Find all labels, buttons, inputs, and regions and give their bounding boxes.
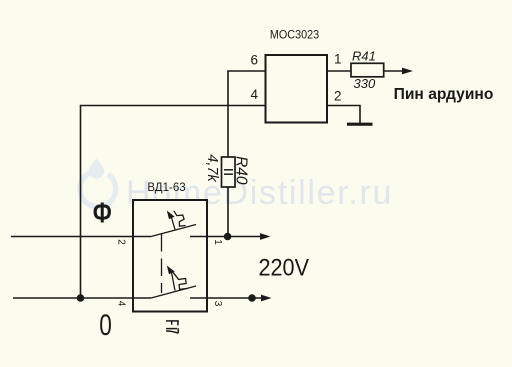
arrow to arduino bbox=[402, 68, 413, 75]
svg-text:R41: R41 bbox=[352, 49, 376, 64]
watermark logo droplet bbox=[89, 159, 105, 179]
wire: MOC pin2 to ground bbox=[327, 106, 360, 124]
svg-text:4: 4 bbox=[250, 87, 258, 102]
svg-text:4,7k: 4,7k bbox=[204, 154, 220, 182]
switch pole 1 release flag bbox=[174, 211, 186, 226]
svg-text:Пин ардуино: Пин ардуино bbox=[394, 86, 494, 103]
wire: MOC pin4 left then down to neutral bbox=[81, 106, 266, 299]
watermark logo ring bbox=[80, 171, 116, 207]
switch pole 2 blade bbox=[151, 286, 196, 298]
wire: MOC pin6 to R40 top (horizontal + vertical) bbox=[228, 71, 266, 157]
svg-text:4: 4 bbox=[115, 301, 126, 307]
wire: phase input bbox=[11, 236, 151, 238]
ground bbox=[347, 123, 373, 126]
arrow neutral 220V bbox=[261, 295, 272, 302]
svg-text:ВД1-63: ВД1-63 bbox=[147, 182, 185, 194]
resistor R40 inner power marks bbox=[224, 169, 233, 171]
label F7 bbox=[166, 321, 179, 333]
svg-text:3: 3 bbox=[212, 301, 223, 307]
svg-text:1: 1 bbox=[212, 239, 223, 245]
wire: MOC pin1 to R41 bbox=[327, 70, 351, 72]
switch pole 2 release flag bbox=[173, 272, 188, 289]
wire: R41 to arduino pin arrow bbox=[384, 70, 403, 72]
svg-text:6: 6 bbox=[250, 53, 258, 68]
junction: neutral drop bbox=[77, 294, 85, 302]
switch pole 1 trip arrow bbox=[167, 211, 175, 220]
svg-text:Ф: Ф bbox=[93, 198, 112, 230]
wire: neutral output with junction bbox=[190, 297, 262, 299]
svg-text:1: 1 bbox=[334, 52, 342, 67]
junction on neutral output bbox=[248, 294, 256, 302]
resistor R40 bbox=[222, 157, 236, 187]
svg-text:0: 0 bbox=[99, 309, 112, 342]
svg-text:R40: R40 bbox=[233, 156, 250, 185]
switch pole 2 trip arrow bbox=[167, 266, 175, 275]
svg-text:2: 2 bbox=[334, 89, 342, 104]
junction: R40 to phase output bbox=[224, 233, 232, 241]
svg-text:220V: 220V bbox=[259, 254, 310, 281]
wire: R40 bottom to junction on phase output bbox=[227, 187, 229, 237]
breaker QF1 box ВД1-63 bbox=[133, 200, 207, 312]
svg-text:330: 330 bbox=[354, 76, 376, 91]
wire: neutral input bbox=[13, 297, 151, 299]
svg-text:MOC3023: MOC3023 bbox=[270, 28, 319, 42]
optocoupler U1 MOC3023 bbox=[266, 55, 328, 123]
resistor R41 bbox=[351, 63, 384, 77]
switch pole 1 blade bbox=[151, 225, 196, 237]
arrow phase 220V bbox=[260, 233, 271, 240]
wire: phase output with junction bbox=[190, 236, 261, 238]
linkage dashed bbox=[161, 234, 163, 293]
svg-text:2: 2 bbox=[115, 239, 126, 245]
